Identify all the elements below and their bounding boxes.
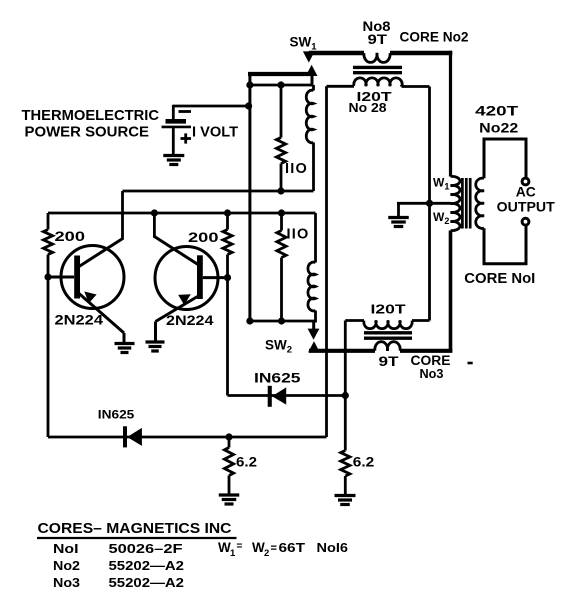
resistor R5 6.2 left - top lead [228, 437, 231, 448]
svg-text:No3: No3 [53, 575, 80, 590]
wire x429 rail (T2 120T right end down to T3 120T right end) [428, 87, 431, 321]
node Q1 base junction [44, 273, 51, 280]
node Q2 base junction [224, 274, 231, 281]
transformer T1 winding W1 (3 turns) [451, 176, 460, 203]
svg-text:No 28: No 28 [349, 100, 387, 115]
transistor Q1 base bar [74, 256, 80, 299]
resistor R4 110 lower - top lead [280, 213, 283, 231]
svg-text:No2: No2 [53, 558, 80, 573]
ground (battery) [163, 154, 184, 157]
wire T2 120T No28 left end to x326 rail [327, 85, 355, 88]
node resistor200b top junction [224, 209, 231, 216]
ground (center tap) [388, 216, 409, 219]
node rail-y85 junction [246, 81, 253, 88]
svg-text:POWER SOURCE: POWER SOURCE [25, 123, 150, 140]
diode D1 triangle [272, 387, 286, 404]
wire T2 120T right end jog to x429 rail [400, 85, 403, 87]
wire R6 bottom to ground [344, 476, 347, 495]
ground (R5) [219, 493, 240, 496]
svg-text:1: 1 [230, 548, 236, 559]
wire R5 bottom to ground [228, 476, 231, 495]
wire Q1 emitter down to ground [123, 333, 126, 343]
node resistor110a top junction [277, 81, 284, 88]
svg-text:50026–2F: 50026–2F [109, 541, 183, 556]
diode D2 triangle [127, 428, 142, 446]
svg-text:OUTPUT: OUTPUT [497, 200, 556, 215]
stray dash mark [468, 362, 473, 365]
ground (R6) [335, 494, 356, 497]
wire SW2 riser from lower RL bottom [312, 321, 315, 330]
resistor R4 bottom lead [280, 258, 283, 322]
wire 9T winding to output transformer W1 top (thick) [390, 51, 452, 55]
switch SW2 moving contact arrow (up) [308, 341, 320, 352]
resistor R3 110 upper - top lead [280, 85, 283, 138]
wire T3 120T right end to x429 rail [412, 319, 430, 322]
resistor R5 6.2 zigzag [224, 448, 233, 476]
transistor Q1 emitter arrow (PNP) [84, 292, 96, 304]
wire left rail x250 (SW1 lower contact down to lower RL bottom) [248, 72, 251, 321]
svg-text:6.2: 6.2 [236, 455, 257, 470]
svg-text:No3: No3 [420, 366, 444, 381]
node battery-rail junction [245, 102, 252, 109]
wire T3 9T winding to W2 rail (thick) [400, 349, 452, 353]
wire T3 120T left end to x345 rail [345, 319, 364, 322]
resistor R2 200 zigzag [223, 230, 232, 255]
svg-text:IIO: IIO [285, 161, 308, 177]
transformer T3 winding 120T (4 turns) [364, 321, 412, 329]
wire x345 rail (T3 120T left down to 6.2 resistor) [344, 321, 347, 451]
svg-text:IN625: IN625 [98, 408, 135, 422]
transistor Q2 2N224 circle [155, 247, 218, 310]
transistor Q2 collector lead (diagonal) [154, 237, 198, 265]
wire L1 bottom to y191 row [312, 143, 315, 192]
wire battery to left rail node [173, 105, 248, 108]
wire Q1 collector riser to y191 row [121, 191, 124, 240]
wire y213 row (bases/collector cross row to lower RL top) [48, 212, 316, 215]
svg-text:200: 200 [55, 228, 86, 244]
wire W2 bottom rail down to T3 9T (thick) [449, 231, 453, 353]
node rail bottom junction [246, 317, 253, 324]
transistor Q2 base lead [203, 276, 228, 279]
inductor L2 (lower 110-ohm parallel coil, 4 turns) [308, 262, 316, 311]
transformer T2 core lines (core No2) [353, 66, 402, 69]
transformer T2 winding 9T (2 turns) [364, 53, 390, 62]
inductor L1 (upper 110-ohm parallel coil, 4 turns) [312, 85, 315, 91]
resistor R3 110 zigzag [276, 138, 285, 164]
transistor Q2 emitter lead (diagonal) [156, 297, 198, 322]
node D2 row / 6.2 resistor junction [225, 433, 232, 440]
transformer T1 core lines (3 vertical, core No1) [461, 178, 464, 229]
svg-text:NoI: NoI [53, 541, 79, 556]
transistor Q1 collector lead (diagonal) [79, 238, 123, 266]
diode D1 cathode bar [268, 386, 272, 407]
diode D2 cathode bar [123, 426, 127, 447]
svg-text:55202—A2: 55202—A2 [109, 558, 185, 573]
switch SW1 moving contact arrow (up) [306, 65, 318, 76]
wire Q2 base node down to upper diode row [226, 278, 229, 396]
transformer T1 winding W2 (3 turns) [451, 203, 460, 230]
resistor R1 200 zigzag [43, 230, 52, 255]
switch SW2 fixed contact arrow (down) [308, 329, 320, 340]
svg-text:=: = [271, 543, 277, 555]
node center-tap junction on x429 rail [426, 200, 433, 207]
svg-text:IN625: IN625 [254, 371, 301, 386]
wire node row y85 (rail to upper RL network top) [249, 84, 314, 87]
terminal AC output top (ring) [522, 178, 529, 185]
wire battery positive to ground stem [172, 105, 175, 120]
battery B1 positive plate (long thin) [162, 126, 192, 129]
svg-text:2: 2 [264, 548, 269, 559]
svg-text:I VOLT: I VOLT [192, 125, 238, 141]
transistor Q1 2N224 circle [61, 246, 124, 309]
transformer T3 winding 9T (2 turns) [375, 342, 400, 351]
wire SW2 moving contact to T3 9T winding (thick) [309, 349, 375, 353]
svg-text:AC: AC [516, 185, 536, 200]
transformer T1 secondary 420T (4 turns) [476, 178, 484, 228]
svg-text:2N224: 2N224 [55, 313, 104, 328]
resistor R4 110 zigzag [277, 231, 286, 258]
wire R1 bottom to Q1 base node and down to lower diode row [47, 255, 50, 438]
svg-text:2N224: 2N224 [166, 313, 214, 328]
transistor Q1 base lead [48, 276, 74, 279]
ground (Q2 emitter) [146, 340, 165, 343]
wire SW1 top contact to transformer T2 9T winding (thick) [309, 51, 364, 55]
diode D2 1N625 lower row wire [48, 436, 327, 439]
transistor Q2 base bar [197, 255, 203, 299]
switch SW1 fixed contact arrow (down) [303, 51, 315, 62]
wire Q2 emitter down to ground [154, 322, 157, 342]
resistor R6 6.2 right zigzag [341, 451, 350, 477]
svg-text:420T: 420T [475, 103, 519, 119]
battery plus sign [181, 137, 192, 140]
terminal AC output bottom (ring) [522, 218, 529, 225]
wire SW1 moving contact stem down to coil L1 top [311, 74, 314, 87]
resistor R1 200 left - rail from y213 [47, 213, 50, 230]
svg-text:CORES– MAGNETICS INC: CORES– MAGNETICS INC [38, 521, 233, 537]
resistor R3 bottom lead [280, 164, 283, 192]
svg-text:No22: No22 [479, 120, 518, 136]
svg-text:9T: 9T [368, 32, 388, 47]
wire lower RL right side down to coil L2 [314, 213, 317, 263]
node D1 row to x345 rail junction [342, 392, 349, 399]
transistor Q2 emitter arrow (PNP) [178, 294, 191, 305]
resistor R2 200 right - rail from y213 [226, 213, 229, 230]
svg-text:66T: 66T [279, 541, 306, 555]
battery minus sign [179, 110, 192, 113]
node Q2 collector riser junction [151, 209, 158, 216]
svg-text:CORE No2: CORE No2 [400, 30, 469, 45]
transformer T3 core lines (core No3) [364, 331, 412, 334]
svg-text:I20T: I20T [371, 302, 406, 317]
svg-text:CORE NoI: CORE NoI [464, 271, 535, 287]
wire center tap to ground stem [397, 202, 451, 205]
svg-text:9T: 9T [379, 354, 400, 369]
wire output transformer W1 top rail [449, 51, 452, 177]
diode D1 1N625 upper row wire [228, 394, 346, 397]
ground (center tap) stem [397, 203, 400, 217]
wire secondary bottom loop to AC terminal [484, 226, 526, 264]
node resistor110b top junction [278, 209, 285, 216]
node R4 bottom junction [278, 317, 285, 324]
battery B1 negative plate (short thick) [166, 119, 187, 124]
wire SW1 lower contact horizontal (thick) [248, 72, 311, 76]
node R3 bottom junction [277, 187, 284, 194]
svg-text:NoI6: NoI6 [317, 541, 349, 555]
svg-text:IIO: IIO [287, 227, 310, 243]
wire R2 bottom to Q2 base node [226, 255, 229, 278]
wire secondary top loop to AC terminal [484, 139, 526, 178]
svg-text:55202—A2: 55202—A2 [109, 575, 185, 590]
svg-text:=: = [237, 541, 243, 552]
svg-text:6.2: 6.2 [353, 455, 375, 470]
wire x326 rail (T2 120T left end down to lower diode row) [325, 86, 328, 437]
wire y191 row (Q1 collector to upper RL bottom) [123, 190, 314, 193]
transformer T2 winding 120T No28 (4 turns) [354, 78, 402, 86]
svg-text:200: 200 [188, 229, 219, 245]
svg-text:THERMOELECTRIC: THERMOELECTRIC [22, 107, 160, 124]
wire L2 bottom stub [314, 311, 317, 323]
wire lower RL bottom row y321 [249, 320, 316, 323]
ground (Q1 emitter) [115, 342, 135, 345]
transistor Q1 emitter lead (diagonal) [79, 294, 124, 334]
wire Q2 collector riser to y213 row [153, 213, 156, 238]
wire battery bottom stem [172, 127, 175, 155]
